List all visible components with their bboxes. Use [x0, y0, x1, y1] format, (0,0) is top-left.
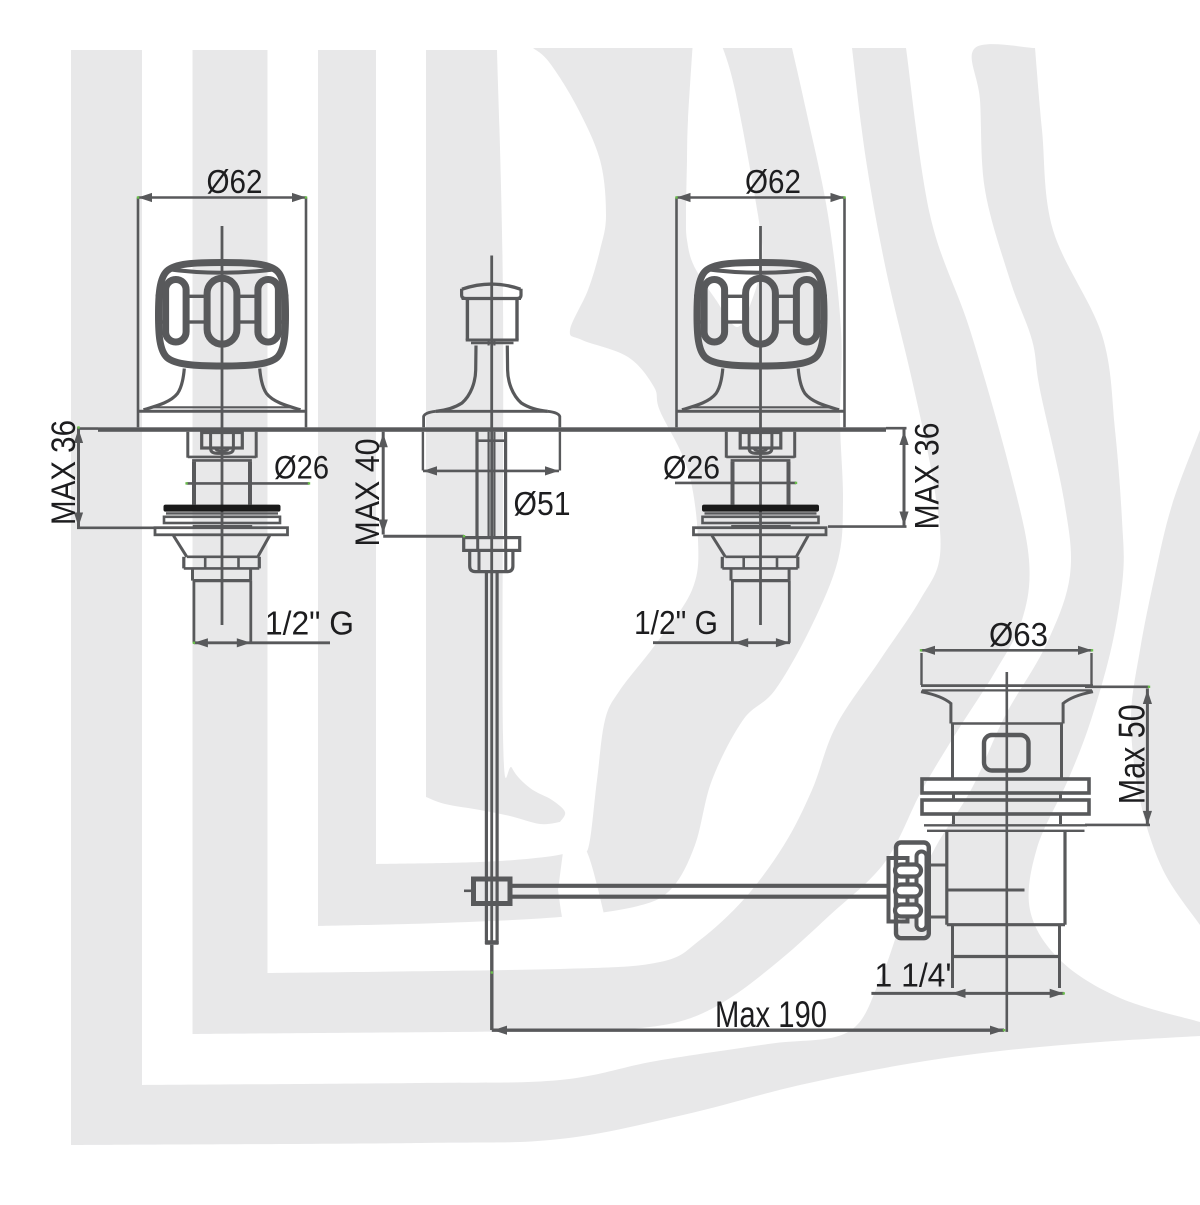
cad endpoint markers: [137, 196, 139, 198]
left handle: valve body &#216;26: [192, 462, 196, 505]
drain washer plate B: [922, 800, 1089, 814]
knurl inner slot: [917, 852, 927, 931]
svg-text:Ø26: Ø26: [663, 450, 720, 486]
rod lever inside drain: [947, 889, 1025, 892]
left handle: black o-ring seal: [164, 505, 281, 512]
drain body: [951, 724, 954, 780]
right handle: mounting flange: [694, 528, 827, 535]
pull rod (vertical): [485, 572, 488, 941]
svg-text:MAX 36: MAX 36: [45, 420, 83, 525]
watermark band: stripe3 + leg3 + jog + upper-left blob: [318, 48, 843, 926]
watermark: white lens cutout between bowl lobes: [686, 40, 762, 327]
svg-text:1/2" G: 1/2" G: [265, 605, 354, 642]
wheel-to-housing connector: [929, 864, 947, 867]
svg-text:Ø63: Ø63: [989, 616, 1048, 653]
right handle: thread step 1: [721, 557, 724, 569]
&#216;51 dimension: [422, 432, 424, 471]
left 1/2&#34; G dimension: [194, 641, 330, 644]
MAX 40 dimension: [382, 432, 385, 535]
spout lift knob dome: [462, 284, 521, 289]
svg-text:Max 50: Max 50: [1112, 704, 1153, 804]
spout lower hex: [470, 550, 513, 571]
left handle: neck and skirt: [144, 369, 185, 410]
left handle: seal washer line: [166, 512, 278, 514]
left handle: washer plate: [164, 517, 280, 523]
deck / countertop line: [98, 427, 886, 432]
left handle: knob top inner arc: [167, 269, 278, 273]
knurled adjuster wheel: [896, 843, 929, 939]
right handle: dimension box sides: [675, 198, 678, 428]
right handle: knob outline: [697, 263, 824, 367]
svg-text:Max 190: Max 190: [715, 994, 827, 1035]
left handle: knob outline: [159, 263, 286, 367]
1 1/4 inch dimension: [871, 992, 1063, 995]
left handle: tailpiece 1/2 inch: [192, 581, 195, 643]
svg-text:MAX 40: MAX 40: [349, 439, 387, 547]
MAX 36 left dimension: [77, 428, 80, 528]
right 1/2&#34; G dimension: [653, 641, 790, 644]
rod end cap: [485, 940, 499, 945]
right handle: seal washer line: [705, 512, 817, 514]
watermark band: stripe2 + leg2 + arc C: [193, 48, 1030, 1034]
horizontal rod to drain: [513, 884, 890, 888]
right &#216;26 label: [675, 482, 796, 485]
left handle: packing hex nut: [202, 433, 243, 449]
svg-text:Ø26: Ø26: [274, 450, 329, 486]
right handle: knob left capsule: [704, 280, 725, 343]
right handle: tailpiece 1/2 inch: [731, 581, 734, 643]
horizontal rod stub left: [464, 889, 471, 892]
left handle: mounting flange: [155, 528, 288, 535]
spout rod in shank: [488, 432, 490, 538]
right handle: neck and skirt: [682, 369, 723, 410]
drain axis extension: [1005, 1013, 1008, 1032]
left &#216;26 label: [187, 482, 309, 485]
spout lift knob cap: [462, 289, 521, 299]
spout neck and trumpet flare: [436, 346, 476, 412]
watermark: clipped band at right canvas edge: [1131, 430, 1200, 925]
right handle: center axis: [759, 226, 762, 625]
right handle: knob joint lines: [694, 295, 701, 298]
watermark: white channel crossing leg3: [558, 844, 610, 934]
drain thin washer: [924, 824, 1087, 826]
right handle: cone taper: [712, 536, 725, 557]
drain center axis: [1005, 672, 1008, 1013]
svg-text:MAX 36: MAX 36: [909, 423, 947, 530]
left handle: collar line: [193, 525, 253, 527]
left handle: knob middle capsule: [207, 278, 237, 344]
Max 190 dimension: [492, 1028, 1004, 1031]
drain &#216;63 dimension: [921, 649, 1092, 652]
left handle: cone taper: [173, 536, 186, 557]
MAX 36 right dimension: [903, 430, 906, 527]
knurl capsules: [895, 865, 921, 877]
right handle: knob middle capsule: [746, 278, 776, 344]
right handle: valve body &#216;26: [731, 462, 735, 505]
right handle: washer plate: [703, 517, 819, 523]
left handle: thread step 2: [191, 568, 194, 580]
Max 50 dimension: [1085, 685, 1149, 688]
watermark band: stripe4 with corner tail (middle bar): [426, 50, 565, 824]
right handle: packing hex nut: [740, 433, 781, 449]
spout shank below deck: [475, 432, 478, 538]
drain neck joint line: [951, 722, 1063, 724]
right handle: black o-ring seal: [702, 505, 819, 512]
right handle: knob right capsule: [796, 280, 817, 343]
right handle: bonnet sleeve below deck: [725, 432, 728, 458]
left handle: thread step 1: [182, 557, 185, 569]
left handle: center axis: [221, 226, 224, 625]
spout mounting nut: [464, 538, 520, 551]
knurled adjuster stem plate: [889, 858, 908, 922]
left handle: dimension box sides: [137, 198, 140, 428]
svg-text:Ø51: Ø51: [514, 485, 571, 522]
drain flange: [921, 684, 1093, 687]
drain washer plate A: [922, 779, 1089, 793]
left handle: knob left capsule: [166, 280, 187, 343]
right handle: thread step 2: [730, 568, 733, 580]
drain lower housing: [945, 832, 948, 925]
right handle: dimension line &#216;62: [677, 196, 845, 199]
drain tail step: [951, 925, 954, 957]
svg-text:1 1/4': 1 1/4': [875, 957, 952, 994]
spout base plate: [436, 410, 548, 413]
right handle: collar line: [731, 525, 791, 527]
spout pull-rod (upper dashes): [488, 342, 490, 346]
left handle: knob right capsule: [258, 280, 279, 343]
right handle: knob top inner arc: [705, 269, 816, 273]
left handle: knob joint lines: [156, 295, 163, 298]
svg-text:Ø62: Ø62: [207, 163, 263, 200]
svg-text:1/2" G: 1/2" G: [634, 604, 718, 641]
drain tail pipe 1 1/4: [951, 957, 954, 989]
extension line below rod: [490, 945, 493, 1030]
spout center axis: [490, 256, 493, 945]
svg-text:Ø62: Ø62: [745, 163, 801, 200]
pull rod junction block: [474, 879, 511, 904]
drain overflow hole: [984, 735, 1029, 771]
spout upper cylinder: [466, 300, 469, 340]
left handle: bonnet sleeve below deck: [186, 432, 189, 458]
left handle: dimension line &#216;62: [138, 196, 306, 199]
